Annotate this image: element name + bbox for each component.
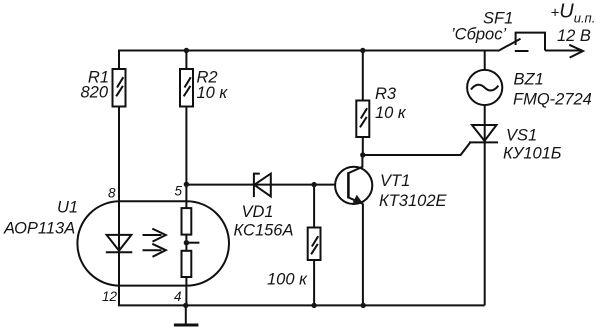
node R3 / collector / gate [360, 152, 365, 157]
U1 radiation arrow 2 [143, 244, 166, 257]
wire top rail [118, 50, 498, 52]
U1 photoresistor bottom half [182, 251, 192, 277]
svg-text:U1: U1 [57, 199, 78, 217]
buzzer BZ1 [467, 70, 502, 105]
resistor 100k [308, 228, 321, 261]
svg-text:8: 8 [108, 186, 116, 201]
svg-text:FMQ-2724: FMQ-2724 [513, 91, 592, 109]
switch SF1 [498, 33, 582, 51]
svg-text:КУ101Б: КУ101Б [503, 145, 562, 163]
power output arrow [569, 45, 583, 58]
node top rail / R3 [360, 48, 365, 53]
wire bottom rail [118, 304, 485, 306]
node top rail / R2 [184, 48, 189, 53]
U1 photoresistor center tap [186, 242, 199, 244]
svg-text:VD1: VD1 [242, 203, 274, 221]
U1 LED [106, 235, 133, 252]
resistor R3 [356, 101, 369, 138]
resistor R2 [180, 69, 193, 107]
svg-text:12: 12 [102, 289, 118, 304]
ground [174, 305, 199, 325]
svg-text:VT1: VT1 [380, 172, 410, 190]
svg-text:’Сброс’: ’Сброс’ [451, 26, 506, 44]
node bottom rail / emitter [361, 303, 366, 308]
svg-text:12 В: 12 В [557, 27, 591, 45]
node photoresistor tap [184, 240, 189, 245]
wire 100k branch vertical [313, 185, 315, 306]
svg-text:5: 5 [174, 184, 182, 199]
zener diode VD1 [254, 174, 271, 198]
optocoupler U1 body [77, 201, 229, 285]
svg-text:КТ3102Е: КТ3102Е [379, 192, 448, 210]
U1 radiation arrow 1 [143, 229, 166, 242]
svg-text:VS1: VS1 [506, 127, 537, 145]
wire R2/pin5/pin4 vertical [185, 51, 187, 306]
svg-text:4: 4 [174, 289, 182, 304]
wire BZ1/VS1 vertical [484, 51, 486, 306]
transistor VT1 [335, 155, 372, 305]
wire base net: opto pin5 to VD1 to VT1 base [186, 184, 336, 186]
svg-text:100 к: 100 к [267, 271, 308, 289]
svg-text:КС156А: КС156А [234, 222, 294, 240]
resistor R1 [113, 69, 126, 107]
svg-text:BZ1: BZ1 [514, 71, 544, 89]
svg-text:АОР113А: АОР113А [3, 220, 75, 238]
wire R1/pin8/pin12 vertical [118, 51, 120, 306]
node bottom rail / 100k [311, 303, 316, 308]
svg-text:10 к: 10 к [375, 104, 407, 122]
node base net / 100k [311, 182, 316, 187]
svg-text:R3: R3 [375, 85, 397, 103]
svg-text:10 к: 10 к [197, 84, 229, 102]
wire VS1 gate horizontal [363, 142, 471, 155]
node pin5 / base net [184, 182, 189, 187]
node bottom rail / ground [183, 303, 188, 308]
thyristor VS1 [469, 125, 498, 142]
U1 photoresistor top half [182, 208, 192, 235]
wire R3 vertical / collector [362, 51, 364, 156]
svg-text:820: 820 [80, 84, 108, 102]
